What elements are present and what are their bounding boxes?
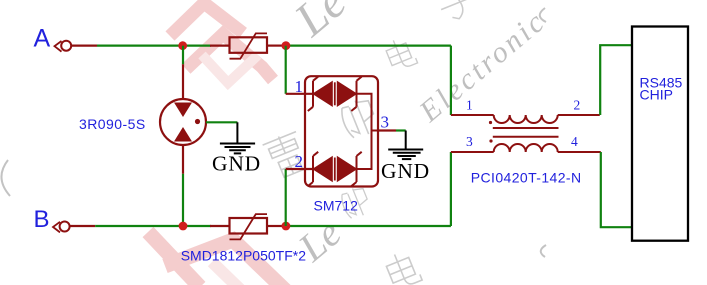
hanzi dian lower — [383, 249, 422, 285]
pin 1 lead — [451, 114, 494, 116]
svg-text:PCI0420T-142-N: PCI0420T-142-N — [471, 169, 582, 185]
pin stub right of RV2 — [267, 225, 283, 227]
wire gas tube to GND1 — [206, 121, 237, 123]
wire SM712 pin2 branch — [285, 169, 287, 226]
wire gas tube top — [182, 46, 184, 65]
node junction B-branch — [179, 222, 188, 231]
svg-text:CHIP: CHIP — [640, 87, 673, 103]
wire SM712 pin1 branch — [285, 46, 287, 94]
wire B stub — [70, 225, 95, 227]
core — [493, 127, 559, 129]
internal net to pin 3 — [357, 94, 372, 169]
wire choke pin2 to chip — [600, 45, 631, 115]
pin 3 lead — [451, 151, 494, 153]
pin 4 lead — [558, 151, 601, 153]
pin stub left of RV2 — [210, 225, 230, 227]
wire A rail to varistor — [185, 44, 211, 46]
svg-text:3: 3 — [466, 134, 473, 149]
pin 2 lead — [558, 114, 600, 116]
wire gas tube bottom — [182, 145, 184, 174]
pin stub right of RV1 — [267, 44, 283, 46]
svg-text:A: A — [34, 25, 51, 53]
svg-text:2: 2 — [574, 98, 581, 113]
hanzi zi upper — [435, 0, 478, 24]
TVS array D1 SM712 — [305, 76, 378, 186]
wire pin3 to GND2 — [378, 129, 396, 131]
svg-text:SMD1812P050TF*2: SMD1812P050TF*2 — [181, 248, 307, 264]
watermark logo top — [170, 3, 273, 83]
polarity dots — [489, 121, 492, 124]
hanzi mao upper — [338, 96, 380, 141]
wire choke pin4 to chip — [601, 152, 631, 227]
RS485 chip U1 — [632, 27, 688, 241]
svg-text:B: B — [34, 206, 50, 233]
wire down to choke pin 1 — [450, 46, 452, 115]
svg-text:GND: GND — [212, 152, 261, 176]
ground GND1 — [220, 122, 255, 153]
wire A rail right — [288, 44, 451, 46]
pin stub left of RV1 — [210, 44, 230, 46]
diode pair pins 2 — [308, 152, 362, 186]
wire A rail left — [97, 44, 180, 46]
ground GND2 — [388, 131, 423, 160]
winding 2 — [494, 144, 558, 152]
svg-text:SM712: SM712 — [314, 197, 359, 213]
gas discharge tube GT1 3R090-5S — [160, 99, 206, 145]
wire B rail left — [95, 225, 180, 227]
varistor RV1 (SMD1812P050TF) top — [230, 33, 268, 58]
wire B rail right — [288, 225, 451, 227]
svg-text:3R090-5S: 3R090-5S — [79, 116, 146, 132]
svg-text:GND: GND — [381, 159, 430, 183]
svg-text:2: 2 — [295, 152, 304, 171]
svg-text:1: 1 — [295, 77, 304, 96]
svg-text:4: 4 — [571, 134, 578, 149]
diode pair pins 1 — [308, 77, 362, 111]
hanzi lei lower — [262, 130, 310, 181]
svg-text:3: 3 — [381, 113, 390, 132]
watermark curl left edge — [1, 160, 10, 196]
wire up to choke pin 3 — [450, 152, 452, 226]
wire A stub — [72, 44, 98, 46]
node junction B-SM712 — [282, 222, 291, 231]
svg-text:1: 1 — [466, 98, 473, 113]
common mode choke T1 PCI0420T-142-N — [451, 115, 601, 152]
winding 1 — [494, 115, 558, 123]
node junction A-SM712 — [282, 41, 291, 50]
node junction A-branch — [178, 41, 187, 50]
hanzi mao lower — [339, 185, 373, 221]
varistor RV2 (SMD1812P050TF) bottom — [230, 214, 268, 239]
hanzi dian upper — [384, 35, 418, 72]
watermark logo bottom — [148, 232, 286, 285]
